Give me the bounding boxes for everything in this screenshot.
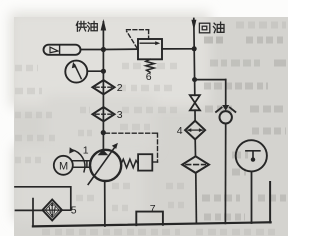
- filter 3 (diamond): [93, 107, 115, 121]
- filter 4 (diamond): [185, 121, 205, 140]
- compensator box: [138, 154, 152, 170]
- pressure gauge: [65, 61, 87, 83]
- rotation arrow over shaft: [71, 150, 85, 172]
- wire: suction loop upper (line A): [15, 187, 71, 210]
- wire: thermometer to tank line: [251, 171, 253, 223]
- wire: return main vertical line (slight lean): [194, 19, 195, 96]
- label 供油 (supply oil): [76, 21, 97, 31]
- tank 7: [136, 212, 163, 226]
- wire: relief branch horizontal: [103, 48, 138, 50]
- svg-text:1: 1: [83, 145, 89, 157]
- supply arrow up: [101, 19, 107, 31]
- node: junction supply/gauge: [101, 69, 106, 74]
- return arrow down: [191, 20, 196, 31]
- wire: line C vertical: [32, 199, 34, 227]
- svg-text:M: M: [59, 161, 68, 173]
- shut-off valve (bowtie): [190, 95, 200, 103]
- wire: branch to check valve: [195, 79, 226, 81]
- motor M circle: [54, 156, 73, 175]
- relief valve pilot dashed line: [127, 30, 149, 49]
- accumulator capsule: [44, 45, 81, 55]
- wire: capsule to supply line: [81, 49, 104, 51]
- wire: supply main vertical line: [102, 22, 104, 150]
- svg-text:7: 7: [150, 203, 156, 215]
- node: junction supply/pilot: [101, 130, 106, 135]
- svg-text:3: 3: [117, 109, 123, 121]
- wire: right edge vertical: [269, 182, 271, 223]
- compensator spring: [121, 159, 138, 168]
- wire: gauge to supply line: [87, 70, 103, 72]
- wire: tank bottom line: [33, 222, 271, 226]
- wire: pump to tank line: [104, 181, 106, 226]
- wire: suction line B: [16, 209, 43, 211]
- relief valve 6 spring: [146, 59, 154, 72]
- node: junction supply/relief branch: [101, 47, 106, 52]
- thermometer: [236, 140, 267, 171]
- motor shaft: [73, 161, 91, 167]
- bleed-through text noise: [202, 25, 286, 217]
- pump outlet triangle: [98, 149, 109, 155]
- pilot dashed line to pump compensator: [106, 133, 158, 162]
- svg-text:2: 2: [117, 82, 123, 94]
- relief valve 6 body: [138, 39, 162, 59]
- filter 2 (diamond): [93, 80, 115, 94]
- node: junction return/check branch: [192, 77, 197, 82]
- capsule divider: [59, 45, 61, 55]
- pump 1 circle: [90, 150, 121, 181]
- filter 5 (diamond, air filter): [43, 200, 62, 221]
- svg-text:4: 4: [177, 125, 183, 137]
- capsule gas triangle: [50, 47, 58, 53]
- label 回油 (return oil): [199, 22, 224, 33]
- cooler diamond (below 4): [182, 156, 209, 173]
- node: junction return/relief: [192, 46, 197, 51]
- pump variable arrow: [88, 147, 115, 185]
- check valve: [222, 105, 229, 111]
- wire: check valve to tank line: [224, 124, 226, 224]
- svg-text:6: 6: [146, 71, 152, 83]
- svg-text:5: 5: [71, 204, 77, 216]
